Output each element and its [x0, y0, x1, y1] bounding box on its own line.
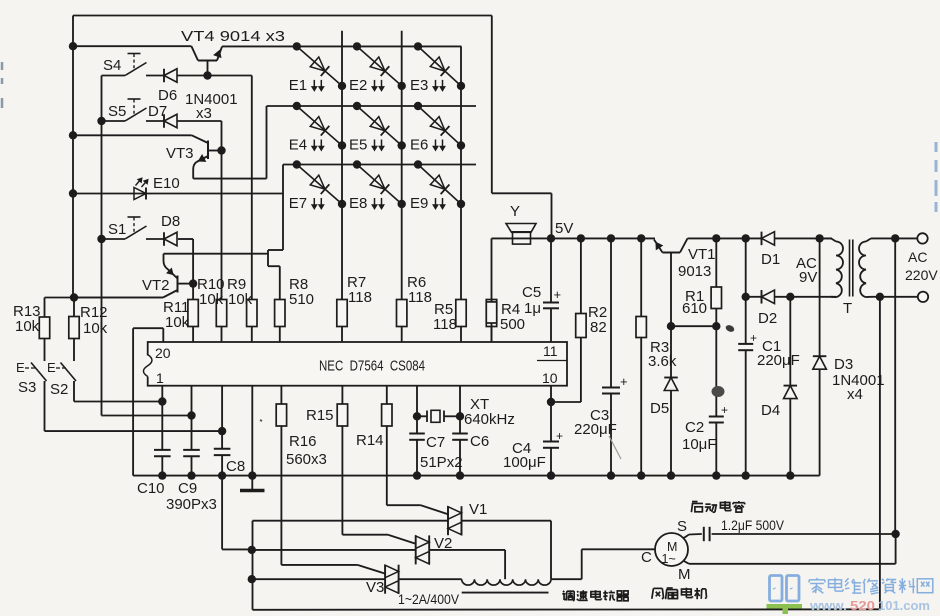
svg-text:560x3: 560x3: [286, 451, 327, 468]
svg-text:C9: C9: [178, 480, 197, 497]
svg-text:VT3: VT3: [166, 145, 194, 162]
svg-text:E5: E5: [349, 137, 367, 154]
svg-text:C5: C5: [522, 284, 541, 301]
svg-text:S5: S5: [108, 103, 126, 120]
svg-text:10k: 10k: [15, 318, 40, 335]
svg-text:S3: S3: [18, 379, 36, 396]
svg-text:10μF: 10μF: [682, 436, 717, 453]
svg-text:510: 510: [289, 291, 314, 308]
svg-text:10k: 10k: [228, 291, 253, 308]
svg-text:VT4 9014 x3: VT4 9014 x3: [181, 28, 285, 45]
svg-text:R12: R12: [80, 304, 108, 321]
svg-text:S1: S1: [108, 221, 126, 238]
svg-text:9013: 9013: [678, 263, 711, 280]
svg-text:S4: S4: [103, 57, 121, 74]
svg-text:5V: 5V: [555, 220, 573, 237]
svg-text:82: 82: [590, 319, 607, 336]
svg-text:220μF: 220μF: [574, 421, 617, 438]
svg-text:20: 20: [155, 345, 171, 361]
svg-text:500: 500: [500, 316, 525, 333]
svg-text:V3: V3: [366, 579, 384, 596]
svg-text:10k: 10k: [199, 291, 224, 308]
svg-text:610: 610: [682, 300, 707, 317]
svg-text:118: 118: [348, 289, 372, 306]
svg-text:10: 10: [542, 370, 558, 386]
svg-text:+: +: [721, 403, 728, 417]
svg-text:R14: R14: [356, 432, 384, 449]
svg-text:E2: E2: [349, 77, 367, 94]
svg-text:+: +: [556, 429, 563, 443]
svg-text:VT2: VT2: [142, 277, 170, 294]
svg-text:T: T: [843, 300, 852, 317]
svg-text:1μ: 1μ: [524, 300, 541, 317]
svg-text:220V: 220V: [905, 267, 938, 283]
svg-text:D7: D7: [148, 103, 167, 120]
svg-text:E6: E6: [410, 137, 428, 154]
svg-text:D1: D1: [761, 251, 780, 268]
svg-text:M: M: [678, 566, 691, 583]
svg-text:D8: D8: [161, 213, 180, 230]
svg-text:10k: 10k: [165, 314, 190, 331]
svg-text:E4: E4: [289, 137, 307, 154]
svg-text:R15: R15: [306, 407, 334, 424]
svg-text:VT1: VT1: [688, 246, 716, 263]
svg-text:101.com: 101.com: [878, 598, 930, 613]
svg-text:118: 118: [433, 316, 457, 333]
svg-text:51Px2: 51Px2: [420, 454, 463, 471]
svg-text:D5: D5: [650, 400, 669, 417]
svg-text:C7: C7: [426, 434, 445, 451]
svg-text:C8: C8: [226, 458, 245, 475]
svg-text:R16: R16: [289, 433, 317, 450]
svg-text:+: +: [750, 331, 757, 345]
svg-text:x4: x4: [847, 386, 863, 403]
svg-text:1: 1: [156, 370, 164, 386]
svg-text:E: E: [16, 360, 25, 375]
svg-text:D3: D3: [834, 356, 853, 373]
svg-text:C: C: [641, 549, 652, 566]
svg-text:640kHz: 640kHz: [464, 411, 515, 428]
svg-text:x3: x3: [196, 105, 212, 122]
svg-text:D2: D2: [758, 310, 777, 327]
svg-text:390Px3: 390Px3: [166, 496, 217, 513]
svg-text:AC: AC: [908, 249, 927, 265]
svg-text:520: 520: [850, 598, 875, 613]
svg-text:www.: www.: [809, 598, 847, 613]
svg-text:V1: V1: [469, 501, 487, 518]
svg-text:E9: E9: [410, 195, 428, 212]
svg-text:9V: 9V: [799, 269, 817, 286]
svg-text:D6: D6: [158, 87, 177, 104]
svg-text:C10: C10: [137, 480, 165, 497]
svg-text:1.2μF 500V: 1.2μF 500V: [721, 517, 785, 533]
svg-text:E10: E10: [153, 175, 180, 192]
svg-text:1~2A/400V: 1~2A/400V: [398, 591, 460, 607]
svg-text:+: +: [620, 374, 628, 389]
svg-text:11: 11: [543, 343, 558, 359]
svg-text:S2: S2: [50, 381, 68, 398]
svg-text:C6: C6: [470, 433, 489, 450]
svg-text:C2: C2: [685, 419, 704, 436]
svg-text:D4: D4: [761, 402, 780, 419]
svg-text:Y: Y: [510, 203, 520, 220]
svg-text:E8: E8: [349, 195, 367, 212]
svg-text:100μF: 100μF: [503, 454, 546, 471]
svg-text:10k: 10k: [83, 320, 108, 337]
svg-text:E1: E1: [289, 77, 307, 94]
svg-text:NEC D7564 CS084: NEC D7564 CS084: [319, 358, 425, 375]
svg-text:E3: E3: [410, 77, 428, 94]
svg-text:E7: E7: [289, 195, 307, 212]
svg-text:1~: 1~: [662, 552, 676, 566]
svg-text:+: +: [554, 287, 562, 302]
svg-text:118: 118: [408, 289, 432, 306]
svg-text:E: E: [47, 360, 56, 375]
svg-text:S: S: [677, 518, 687, 535]
svg-text:220μF: 220μF: [757, 352, 800, 369]
svg-text:3.6k: 3.6k: [648, 353, 677, 370]
